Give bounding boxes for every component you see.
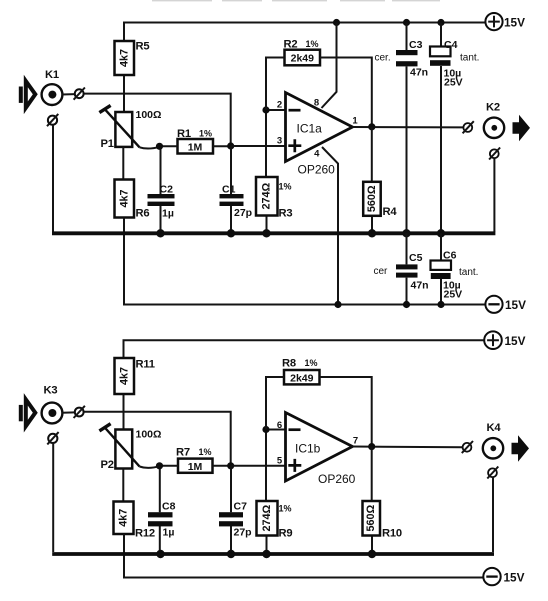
svg-text:R11: R11	[136, 359, 155, 371]
svg-text:47n: 47n	[411, 280, 429, 292]
svg-text:2k49: 2k49	[290, 373, 314, 385]
svg-text:OP260: OP260	[318, 472, 356, 486]
svg-text:560Ω: 560Ω	[365, 505, 377, 532]
svg-text:6: 6	[277, 420, 282, 431]
svg-text:C8: C8	[162, 501, 176, 513]
svg-text:R9: R9	[279, 528, 293, 540]
svg-text:R5: R5	[136, 41, 150, 53]
svg-text:15V: 15V	[505, 334, 526, 348]
svg-text:C6: C6	[443, 250, 457, 262]
svg-text:C3: C3	[409, 39, 423, 51]
svg-text:2: 2	[277, 100, 282, 111]
svg-text:1%: 1%	[279, 504, 292, 514]
svg-text:47n: 47n	[410, 67, 428, 79]
svg-text:tant.: tant.	[459, 267, 478, 278]
svg-text:cer.: cer.	[375, 53, 391, 64]
svg-text:27p: 27p	[234, 207, 252, 219]
svg-text:C4: C4	[444, 39, 458, 51]
svg-text:1%: 1%	[306, 39, 319, 49]
svg-text:5: 5	[277, 456, 283, 467]
svg-text:K2: K2	[486, 102, 500, 114]
svg-text:cer: cer	[374, 266, 389, 277]
svg-text:1µ: 1µ	[162, 208, 174, 220]
svg-text:25V: 25V	[444, 77, 463, 89]
svg-text:4: 4	[314, 149, 320, 160]
svg-text:4k7: 4k7	[117, 509, 129, 527]
svg-text:27p: 27p	[234, 527, 252, 539]
svg-text:P1: P1	[101, 138, 114, 150]
svg-text:K4: K4	[487, 422, 502, 434]
svg-text:K1: K1	[45, 69, 59, 81]
svg-text:IC1a: IC1a	[297, 122, 323, 136]
svg-text:P2: P2	[101, 459, 114, 471]
svg-text:274Ω: 274Ω	[261, 183, 273, 210]
svg-text:R12: R12	[135, 528, 155, 540]
svg-text:100Ω: 100Ω	[136, 109, 162, 121]
svg-text:1M: 1M	[188, 142, 203, 154]
svg-text:1%: 1%	[199, 129, 212, 139]
svg-text:tant.: tant.	[460, 53, 479, 64]
svg-text:15V: 15V	[504, 571, 525, 585]
svg-text:C2: C2	[160, 184, 174, 196]
svg-text:K3: K3	[44, 385, 58, 397]
svg-text:IC1b: IC1b	[295, 442, 321, 456]
svg-text:7: 7	[353, 436, 358, 447]
svg-text:C1: C1	[222, 184, 236, 196]
svg-text:15V: 15V	[504, 16, 525, 30]
svg-text:1M: 1M	[188, 461, 203, 473]
svg-text:R8: R8	[282, 358, 296, 370]
svg-text:100Ω: 100Ω	[136, 429, 162, 441]
svg-text:1: 1	[352, 116, 358, 127]
svg-text:R10: R10	[382, 528, 402, 540]
svg-text:274Ω: 274Ω	[261, 505, 273, 532]
svg-text:15V: 15V	[505, 298, 526, 312]
svg-text:3: 3	[277, 136, 282, 147]
svg-text:R3: R3	[279, 208, 293, 220]
svg-text:1%: 1%	[305, 358, 318, 368]
svg-text:OP260: OP260	[298, 163, 336, 177]
svg-text:1µ: 1µ	[163, 527, 175, 539]
svg-text:R7: R7	[176, 447, 190, 459]
svg-text:1%: 1%	[279, 182, 292, 192]
svg-text:4k7: 4k7	[118, 367, 130, 385]
svg-text:C7: C7	[234, 501, 248, 513]
svg-text:4k7: 4k7	[118, 189, 130, 207]
svg-text:R6: R6	[136, 208, 150, 220]
svg-text:R4: R4	[383, 206, 398, 218]
svg-text:25V: 25V	[444, 289, 463, 301]
svg-text:2k49: 2k49	[291, 53, 315, 65]
svg-text:1%: 1%	[199, 447, 212, 457]
svg-text:C5: C5	[409, 252, 423, 264]
svg-text:560Ω: 560Ω	[366, 185, 378, 212]
svg-text:4k7: 4k7	[118, 49, 130, 67]
svg-text:8: 8	[314, 98, 319, 109]
